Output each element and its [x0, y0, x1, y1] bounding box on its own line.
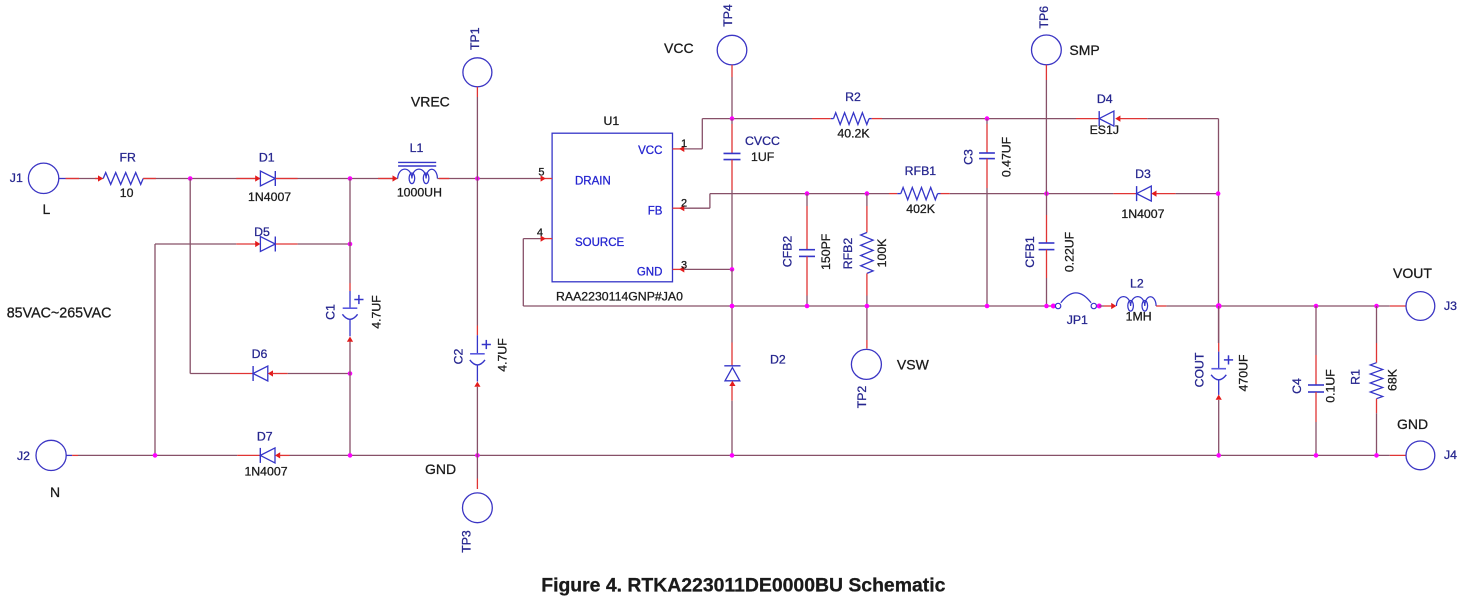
svg-text:0.47UF: 0.47UF — [1000, 136, 1014, 177]
U1 pin 3 GND — [673, 260, 688, 273]
net label VSW — [897, 356, 930, 372]
node D3 right junction — [1216, 191, 1221, 196]
svg-text:1: 1 — [681, 138, 687, 150]
svg-text:DRAIN: DRAIN — [575, 176, 611, 188]
svg-text:J2: J2 — [17, 449, 30, 463]
wire D1 to L1 — [275, 178, 397, 180]
svg-text:FB: FB — [648, 206, 663, 218]
node RFB2 top junction — [865, 191, 870, 196]
svg-text:1UF: 1UF — [751, 150, 775, 164]
node CVCC-D2 source junction — [730, 304, 735, 309]
svg-text:VSW: VSW — [897, 356, 930, 372]
node CFB2 bottom junction — [805, 304, 810, 309]
node C1 GND junction — [348, 453, 353, 458]
node CFB1 top junction — [1044, 191, 1049, 196]
svg-text:4.7UF: 4.7UF — [370, 295, 384, 329]
svg-text:GND: GND — [1397, 416, 1428, 432]
inductor L1 — [393, 141, 442, 199]
diode D6 — [190, 347, 350, 381]
wire N branch vertical — [154, 244, 156, 455]
U1 pin 1 VCC — [673, 138, 688, 152]
svg-text:40.2K: 40.2K — [837, 126, 870, 140]
svg-text:L1: L1 — [410, 141, 424, 155]
svg-text:U1: U1 — [604, 114, 620, 128]
svg-text:402K: 402K — [906, 202, 936, 216]
svg-text:L: L — [43, 201, 51, 217]
svg-text:JP1: JP1 — [1067, 313, 1088, 327]
svg-text:J3: J3 — [1444, 299, 1457, 313]
wire GND rail — [290, 454, 1390, 456]
svg-text:D5: D5 — [254, 225, 270, 239]
wire pin4 to SOURCE rail — [523, 239, 1053, 306]
svg-text:C1: C1 — [324, 304, 338, 320]
svg-text:4: 4 — [537, 227, 543, 239]
test point TP1 — [463, 27, 492, 178]
svg-text:TP2: TP2 — [855, 386, 869, 409]
svg-text:L2: L2 — [1130, 277, 1144, 291]
capacitor C3 — [962, 119, 1014, 306]
wire R2 to D4 — [882, 118, 1076, 120]
svg-text:TP3: TP3 — [459, 530, 473, 553]
svg-text:CFB2: CFB2 — [781, 236, 795, 268]
node C3 top junction — [985, 116, 990, 121]
svg-text:R2: R2 — [845, 90, 861, 104]
net label 85VAC~265VAC — [7, 306, 112, 322]
node CFB1 bottom junction — [1044, 304, 1049, 309]
svg-text:D7: D7 — [257, 429, 273, 443]
svg-text:85VAC~265VAC: 85VAC~265VAC — [7, 306, 112, 322]
resistor RFB1 — [889, 164, 950, 216]
node D6 anode junction — [348, 371, 353, 376]
resistor R2 — [812, 90, 882, 140]
svg-text:D3: D3 — [1135, 167, 1151, 181]
U1 pin 5 DRAIN — [538, 167, 552, 182]
wire J2 to D7 — [72, 454, 237, 456]
svg-text:470UF: 470UF — [1237, 354, 1251, 391]
wire pin1 to VCC rail — [684, 119, 812, 149]
svg-text:C2: C2 — [452, 348, 466, 364]
jumper JP1 — [1051, 293, 1102, 327]
node C3 bottom junction — [985, 304, 990, 309]
svg-text:1000UH: 1000UH — [397, 185, 442, 199]
node VREC junction at C1 top — [348, 176, 353, 181]
svg-text:150PF: 150PF — [819, 233, 833, 270]
wire pin2 to FB rail — [684, 194, 889, 209]
resistor RFB2 — [841, 194, 889, 306]
svg-text:RFB1: RFB1 — [905, 164, 937, 178]
wire C1 bottom to GND rail — [349, 374, 351, 456]
resistor R1 — [1349, 306, 1400, 455]
svg-text:D4: D4 — [1097, 92, 1113, 106]
svg-text:TP1: TP1 — [468, 27, 482, 50]
svg-text:CVCC: CVCC — [745, 134, 780, 148]
svg-text:10: 10 — [120, 186, 134, 200]
svg-text:100K: 100K — [875, 238, 889, 268]
node D2 GND junction — [730, 453, 735, 458]
svg-text:C4: C4 — [1290, 378, 1304, 394]
op-amp U1 body — [552, 114, 683, 304]
svg-text:Figure 4. RTKA223011DE0000BU S: Figure 4. RTKA223011DE0000BU Schematic — [541, 575, 945, 597]
wire RFB1 to D3 — [950, 193, 1114, 195]
node N branch junction — [153, 453, 158, 458]
test point TP2 — [851, 306, 881, 408]
svg-text:VOUT: VOUT — [1393, 265, 1432, 281]
capacitor CFB1 — [1023, 194, 1076, 306]
net label GND — [425, 461, 456, 477]
svg-text:VREC: VREC — [411, 94, 450, 110]
svg-text:RFB2: RFB2 — [841, 238, 855, 270]
svg-text:0.22UF: 0.22UF — [1063, 231, 1077, 272]
svg-text:J4: J4 — [1444, 448, 1457, 462]
capacitor C4 — [1290, 306, 1338, 455]
diode D4 — [1076, 92, 1147, 137]
wire FR to D1 — [143, 178, 260, 180]
connector J1 — [10, 163, 66, 217]
node pin3 junction — [730, 267, 735, 272]
test point TP6 — [1032, 6, 1062, 194]
wire GND net down — [731, 269, 733, 306]
svg-text:D1: D1 — [259, 150, 275, 164]
svg-text:TP6: TP6 — [1037, 6, 1051, 29]
svg-text:5: 5 — [538, 167, 544, 179]
svg-text:R1: R1 — [1349, 369, 1363, 385]
test point TP3 — [459, 455, 492, 552]
svg-text:VCC: VCC — [638, 145, 662, 157]
wire L branch vertical — [189, 179, 191, 374]
svg-text:J1: J1 — [10, 171, 23, 185]
svg-text:GND: GND — [637, 266, 663, 278]
test point TP4 — [717, 4, 747, 119]
node L-branch junction — [188, 176, 193, 181]
node C4 top junction — [1314, 304, 1319, 309]
svg-text:GND: GND — [425, 461, 456, 477]
capacitor CVCC — [724, 119, 780, 270]
wire L2 to J3 — [1166, 305, 1389, 307]
node RFB2 bottom junction — [865, 304, 870, 309]
svg-text:D2: D2 — [770, 352, 786, 366]
U1 pin 2 FB — [673, 198, 688, 212]
svg-text:C3: C3 — [962, 149, 976, 165]
svg-text:0.1UF: 0.1UF — [1324, 369, 1338, 403]
svg-text:68K: 68K — [1385, 368, 1399, 391]
connector J4 — [1390, 416, 1457, 470]
node R1 top junction — [1374, 304, 1379, 309]
capacitor COUT — [1193, 306, 1251, 455]
node TP3 GND junction — [475, 453, 480, 458]
capacitor C2 — [452, 179, 510, 456]
wire L1 to U1 pin5 — [437, 178, 540, 180]
wire J1 to FR — [66, 175, 104, 181]
node VOUT-COUT junction — [1216, 303, 1222, 309]
node D5 cathode junction — [348, 242, 353, 247]
diode D2 — [724, 306, 786, 455]
svg-text:FR: FR — [119, 151, 136, 165]
svg-text:ES1J: ES1J — [1090, 123, 1119, 137]
net label SMP — [1069, 42, 1099, 58]
svg-text:TP4: TP4 — [721, 4, 735, 27]
svg-text:1MH: 1MH — [1126, 309, 1152, 323]
net label VREC — [411, 94, 450, 110]
node COUT GND junction — [1216, 453, 1221, 458]
diode D7 — [237, 429, 289, 478]
svg-text:1N4007: 1N4007 — [1121, 207, 1164, 221]
node R1 GND junction — [1374, 453, 1379, 458]
svg-text:SOURCE: SOURCE — [575, 237, 625, 249]
node CVCC top junction — [730, 116, 735, 121]
wire pin3 to GND net vertical — [684, 268, 732, 270]
node CFB2 top junction — [805, 191, 810, 196]
svg-text:D6: D6 — [252, 347, 268, 361]
capacitor CFB2 — [781, 194, 833, 306]
net label VCC — [664, 40, 694, 56]
svg-text:4.7UF: 4.7UF — [496, 338, 510, 372]
diode D5 — [155, 225, 350, 252]
svg-text:COUT: COUT — [1193, 352, 1207, 387]
connector J2 — [17, 440, 72, 500]
node TP1/VREC junction — [475, 176, 480, 181]
svg-text:CFB1: CFB1 — [1023, 236, 1037, 268]
capacitor C1 — [324, 179, 384, 374]
resistor FR — [103, 151, 143, 200]
svg-text:SMP: SMP — [1069, 42, 1099, 58]
diode D1 — [248, 150, 291, 204]
node C4 GND junction — [1314, 453, 1319, 458]
wire D4 to right vertical — [1147, 119, 1218, 343]
node D2 top junction — [730, 304, 735, 309]
caption — [541, 575, 945, 597]
svg-text:VCC: VCC — [664, 40, 694, 56]
svg-text:N: N — [50, 484, 60, 500]
U1 pin 4 SOURCE — [537, 227, 552, 242]
inductor L2 — [1099, 277, 1166, 324]
svg-text:1N4007: 1N4007 — [248, 190, 291, 204]
svg-text:1N4007: 1N4007 — [244, 465, 287, 479]
diode D3 — [1113, 167, 1218, 221]
connector J3 — [1390, 265, 1457, 320]
svg-text:RAA2230114GNP#JA0: RAA2230114GNP#JA0 — [556, 290, 683, 304]
